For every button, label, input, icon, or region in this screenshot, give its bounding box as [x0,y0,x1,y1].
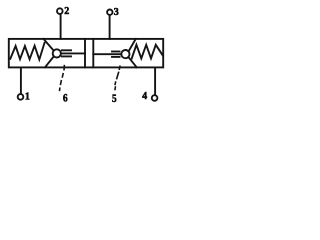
port 1 circle [18,94,24,100]
leader wire to 5 (dashed) [115,66,120,91]
port 3 stem wire [109,15,111,39]
port 4 stem wire [154,68,156,96]
left seat top leg [44,39,54,51]
port 2 stem wire [60,14,62,39]
svg-text:2: 2 [64,6,69,17]
left seat line top [62,49,71,51]
port 3 circle [107,10,112,15]
port 4 circle [152,95,158,101]
spring left [10,43,44,60]
left seat line bottom [62,55,71,57]
spring right [132,45,163,59]
left valve ball [53,49,61,57]
svg-text:5: 5 [112,92,117,105]
right seat top leg [129,39,136,51]
right seat bottom leg [129,57,137,67]
svg-text:4: 4 [142,91,147,102]
svg-text:3: 3 [114,7,119,18]
right seat line bottom [112,56,120,58]
right passage wire [93,53,121,55]
left seat bottom leg [45,57,54,68]
right valve ball [121,50,129,58]
port 2 circle [57,8,63,14]
port 1 stem wire [20,68,22,95]
valve body outline [9,39,163,68]
divider wall left [84,39,86,68]
divider wall right [92,39,94,68]
svg-text:1: 1 [25,92,30,103]
leader wire to 6 (dashed) [60,65,65,91]
left passage wire [61,52,85,54]
svg-text:6: 6 [63,92,68,105]
right seat line top [112,51,120,53]
